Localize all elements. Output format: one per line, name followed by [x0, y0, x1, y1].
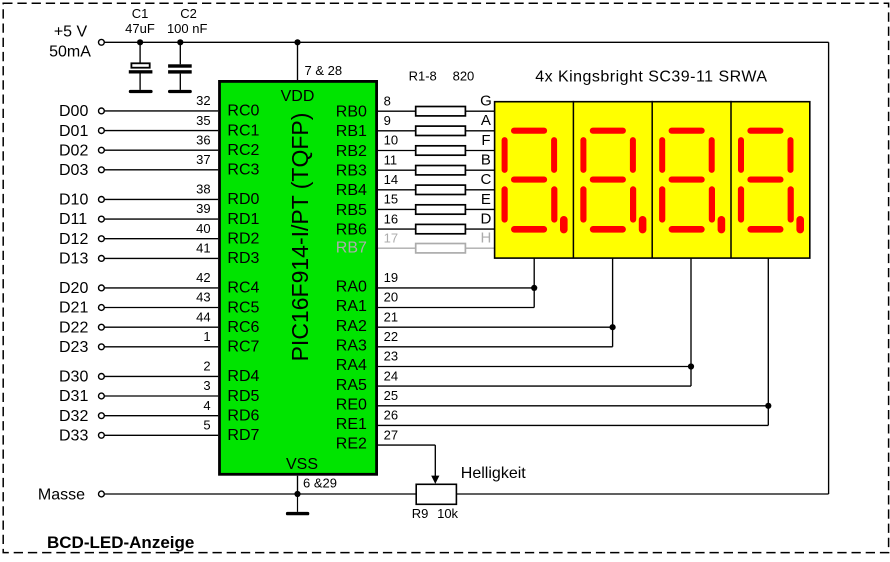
- svg-text:RB1: RB1: [336, 123, 367, 140]
- display digit 2 segments: [580, 128, 646, 234]
- svg-text:43: 43: [196, 290, 210, 305]
- wire RB1 to R2: [378, 130, 416, 132]
- label U1 part number PIC16F914-I/PT (TQFP): [287, 113, 313, 362]
- svg-text:39: 39: [196, 201, 210, 216]
- wire RE0 to digit4: [378, 405, 768, 407]
- svg-text:VSS: VSS: [286, 456, 318, 473]
- terminal D22: [99, 324, 105, 330]
- wire RA1 to digit1: [378, 307, 534, 309]
- wire D10 to RD0: [104, 198, 218, 200]
- ground below C2: [168, 90, 192, 93]
- label pin 2: [203, 359, 210, 374]
- resistor R8: [416, 244, 466, 253]
- label pin name RA3: [336, 337, 367, 354]
- label pin name RB2: [336, 143, 367, 160]
- label pin 37: [196, 152, 210, 167]
- svg-text:RA4: RA4: [336, 357, 367, 374]
- svg-text:32: 32: [196, 93, 210, 108]
- svg-text:11: 11: [384, 152, 398, 167]
- terminal D32: [99, 413, 105, 419]
- svg-text:RC3: RC3: [227, 162, 259, 179]
- terminal D12: [99, 236, 105, 242]
- svg-text:9: 9: [384, 113, 391, 128]
- junction C2 on rail: [177, 39, 183, 45]
- label pin name RB4: [336, 182, 367, 199]
- svg-text:4: 4: [203, 398, 210, 413]
- svg-text:14: 14: [384, 172, 398, 187]
- label pin name RB0: [336, 104, 367, 121]
- svg-text:BCD-LED-Anzeige: BCD-LED-Anzeige: [47, 533, 194, 552]
- resistor R3: [416, 146, 466, 155]
- label pin 10: [384, 133, 398, 148]
- svg-text:RE2: RE2: [336, 436, 367, 453]
- label pin 3: [203, 378, 210, 393]
- terminal D03: [99, 167, 105, 173]
- resistor R6: [416, 205, 466, 214]
- svg-text:C1: C1: [132, 6, 149, 21]
- svg-text:RB5: RB5: [336, 202, 367, 219]
- label pin name RA5: [336, 377, 367, 394]
- svg-text:VDD: VDD: [281, 88, 315, 105]
- wire RB4 to R5: [378, 189, 416, 191]
- wire R5 to segment C: [465, 189, 494, 191]
- terminal D11: [99, 216, 105, 222]
- svg-text:1: 1: [203, 329, 210, 344]
- svg-text:D11: D11: [59, 211, 87, 228]
- svg-text:4x Kingsbright SC39-11 SRWA: 4x Kingsbright SC39-11 SRWA: [535, 68, 767, 85]
- wire D33 to RD7: [104, 434, 218, 436]
- svg-text:G: G: [480, 93, 492, 110]
- label pin name RA1: [336, 298, 367, 315]
- svg-text:R1-8: R1-8: [409, 69, 437, 84]
- svg-text:A: A: [481, 112, 491, 129]
- label segment H: [480, 230, 491, 247]
- label pin name RB5: [336, 202, 367, 219]
- wire RA3 to digit2: [378, 346, 613, 348]
- svg-text:3: 3: [203, 378, 210, 393]
- label pin name RB3: [336, 163, 367, 180]
- terminal D13: [99, 256, 105, 262]
- label pin 43: [196, 290, 210, 305]
- svg-text:Masse: Masse: [38, 487, 85, 504]
- wire D00 to RC0: [104, 110, 218, 112]
- svg-text:RA2: RA2: [336, 318, 367, 335]
- svg-text:47uF: 47uF: [125, 21, 155, 36]
- label pin name RB7: [336, 240, 367, 257]
- svg-text:RB0: RB0: [336, 104, 367, 121]
- wire digit2 common column: [612, 258, 614, 327]
- wire RA2 to digit2: [378, 326, 613, 328]
- svg-text:D33: D33: [59, 428, 88, 445]
- label pin 15: [384, 192, 398, 207]
- resistor R5: [416, 185, 466, 194]
- terminal D02: [99, 147, 105, 153]
- svg-text:RA1: RA1: [336, 298, 367, 315]
- svg-text:19: 19: [384, 270, 398, 285]
- wire D22 to RC6: [104, 326, 218, 328]
- svg-text:+5 V: +5 V: [54, 24, 88, 41]
- display DS1-DS4 4x Kingsbright SC39-11 SRWA body: [495, 101, 810, 258]
- label pin 40: [196, 221, 210, 236]
- label pin 24: [384, 368, 398, 383]
- wire R2 to segment A: [465, 130, 494, 132]
- terminal Masse: [99, 491, 105, 497]
- svg-text:RC6: RC6: [227, 319, 259, 336]
- label pin 19: [384, 270, 398, 285]
- wire RB0 to R1: [378, 110, 416, 112]
- label net D20: [59, 280, 88, 297]
- wire RB5 to R6: [378, 208, 416, 210]
- wire RB7 to R8: [378, 247, 416, 249]
- label pin 44: [196, 309, 210, 324]
- label pin 41: [196, 241, 210, 256]
- wire RE1 to digit4: [378, 424, 768, 426]
- wire RA4 to digit3: [378, 366, 691, 368]
- svg-text:RD1: RD1: [227, 211, 259, 228]
- svg-text:23: 23: [384, 349, 398, 364]
- label pin name RE1: [336, 416, 367, 433]
- svg-text:40: 40: [196, 221, 210, 236]
- svg-text:6 &29: 6 &29: [303, 476, 337, 491]
- junction C1 on rail: [137, 39, 143, 45]
- junction VSS junction: [294, 491, 300, 497]
- svg-text:PIC16F914-I/PT (TQFP): PIC16F914-I/PT (TQFP): [287, 113, 313, 362]
- svg-text:D00: D00: [59, 103, 88, 120]
- label net D11: [59, 211, 87, 228]
- label pin 36: [196, 132, 210, 147]
- svg-text:15: 15: [384, 192, 398, 207]
- svg-text:27: 27: [384, 427, 398, 442]
- svg-text:36: 36: [196, 132, 210, 147]
- wire RE2 out: [378, 444, 435, 446]
- wire R6 to segment E: [465, 208, 494, 210]
- label pin name RC0: [227, 103, 259, 120]
- wire +5V rail to R9: [456, 493, 828, 495]
- svg-text:RD5: RD5: [227, 388, 259, 405]
- svg-text:RB4: RB4: [336, 182, 367, 199]
- svg-text:RD2: RD2: [227, 231, 259, 248]
- junction digit1 common: [531, 285, 537, 291]
- label pin name RC7: [227, 339, 259, 356]
- wire D23 to RC7: [104, 346, 218, 348]
- svg-text:C: C: [480, 171, 491, 188]
- label pin 42: [196, 270, 210, 285]
- svg-text:D02: D02: [59, 142, 88, 159]
- wire R4 to segment B: [465, 169, 494, 171]
- label pin 38: [196, 182, 210, 197]
- svg-text:D13: D13: [59, 251, 88, 268]
- label display title: [535, 68, 767, 85]
- svg-text:D30: D30: [59, 369, 88, 386]
- wire VDD stub: [297, 42, 299, 80]
- svg-text:10: 10: [384, 133, 398, 148]
- label pins 7 & 28: [305, 63, 343, 78]
- capacitor C1: [129, 42, 153, 90]
- svg-text:RA5: RA5: [336, 377, 367, 394]
- svg-text:26: 26: [384, 408, 398, 423]
- R9 wiper arrow: [431, 476, 439, 484]
- svg-text:5: 5: [203, 418, 210, 433]
- svg-text:D12: D12: [59, 231, 88, 248]
- svg-text:7 & 28: 7 & 28: [305, 63, 343, 78]
- svg-text:RA3: RA3: [336, 337, 367, 354]
- wire R7 to segment D: [465, 228, 494, 230]
- display digit 3 segments: [659, 128, 725, 234]
- label pin 8: [384, 93, 391, 108]
- svg-text:RB3: RB3: [336, 163, 367, 180]
- label segment F: [481, 132, 490, 149]
- wire digit1 common column: [533, 258, 535, 288]
- wire D11 to RD1: [104, 218, 218, 220]
- wire RA3 riser: [612, 327, 614, 347]
- display digit 1 segments: [502, 128, 568, 234]
- capacitor C2: [168, 42, 192, 90]
- terminal D31: [99, 393, 105, 399]
- svg-text:100 nF: 100 nF: [167, 21, 208, 36]
- svg-text:20: 20: [384, 290, 398, 305]
- label C2: [180, 6, 197, 21]
- label pin 14: [384, 172, 398, 187]
- svg-text:50mA: 50mA: [49, 44, 91, 61]
- svg-text:RE0: RE0: [336, 396, 367, 413]
- wire D31 to RD5: [104, 395, 218, 397]
- wire RB6 to R7: [378, 228, 416, 230]
- label segment E: [481, 191, 491, 208]
- wire RA0 to digit1: [378, 287, 534, 289]
- svg-text:37: 37: [196, 152, 210, 167]
- label pin name RC3: [227, 162, 259, 179]
- svg-text:RC1: RC1: [227, 122, 259, 139]
- wire RA5 to digit3: [378, 385, 691, 387]
- svg-text:D22: D22: [59, 319, 88, 336]
- svg-text:2: 2: [203, 359, 210, 374]
- wire Masse to R9: [104, 493, 416, 495]
- junction digit2 common: [610, 324, 616, 330]
- svg-text:RB2: RB2: [336, 143, 367, 160]
- label net D33: [59, 428, 88, 445]
- label pin name RA2: [336, 318, 367, 335]
- label pin name RC2: [227, 142, 259, 159]
- label R9 designator: [412, 506, 429, 521]
- wire +5V rail right vertical: [828, 42, 830, 494]
- svg-text:D: D: [480, 210, 491, 227]
- junction digit3 common: [688, 363, 694, 369]
- svg-text:B: B: [481, 152, 491, 169]
- label net D01: [59, 123, 88, 140]
- label net D22: [59, 319, 88, 336]
- label pin name RE0: [336, 396, 367, 413]
- svg-text:8: 8: [384, 93, 391, 108]
- label pin 32: [196, 93, 210, 108]
- svg-text:RC4: RC4: [227, 280, 259, 297]
- svg-text:C2: C2: [180, 6, 197, 21]
- label pin name RD5: [227, 388, 259, 405]
- label segment B: [481, 152, 491, 169]
- terminal D01: [99, 128, 105, 134]
- label Helligkeit: [461, 465, 526, 482]
- label pin 9: [384, 113, 391, 128]
- label C1: [132, 6, 149, 21]
- label pin 20: [384, 290, 398, 305]
- svg-text:42: 42: [196, 270, 210, 285]
- label pin 27: [384, 427, 398, 442]
- label net D30: [59, 369, 88, 386]
- wire RA5 riser: [690, 367, 692, 387]
- svg-text:41: 41: [196, 241, 210, 256]
- wire R1 to segment G: [465, 110, 494, 112]
- label pin 25: [384, 388, 398, 403]
- svg-text:17: 17: [384, 230, 398, 245]
- label pin 39: [196, 201, 210, 216]
- svg-text:D03: D03: [59, 162, 88, 179]
- svg-text:RB7: RB7: [336, 240, 367, 257]
- svg-text:22: 22: [384, 329, 398, 344]
- label pin name RD2: [227, 231, 259, 248]
- wire D30 to RD4: [104, 375, 218, 377]
- label VSS pin name: [286, 456, 318, 473]
- label pin name RE2: [336, 436, 367, 453]
- svg-text:RC0: RC0: [227, 103, 259, 120]
- label pin 35: [196, 113, 210, 128]
- label segment A: [481, 112, 491, 129]
- svg-text:D20: D20: [59, 280, 88, 297]
- label +5 V: [54, 24, 88, 41]
- wire RE2 down to R9 wiper: [434, 445, 436, 476]
- svg-text:R9: R9: [412, 506, 429, 521]
- terminal D10: [99, 197, 105, 203]
- label net D12: [59, 231, 88, 248]
- wire +5V rail top: [104, 41, 828, 43]
- wire D03 to RC3: [104, 169, 218, 171]
- svg-text:D31: D31: [59, 388, 88, 405]
- terminal D23: [99, 344, 105, 350]
- label C1 value: [125, 21, 155, 36]
- label pin 4: [203, 398, 210, 413]
- label R9 value 10k: [437, 506, 458, 521]
- svg-text:16: 16: [384, 211, 398, 226]
- svg-text:RC7: RC7: [227, 339, 259, 356]
- label net D10: [59, 192, 88, 209]
- label schematic title BCD-LED-Anzeige: [47, 533, 194, 552]
- svg-text:D01: D01: [59, 123, 88, 140]
- label net D03: [59, 162, 88, 179]
- svg-text:D10: D10: [59, 192, 88, 209]
- ground below VSS: [286, 494, 309, 515]
- wire RE1 riser: [767, 406, 769, 426]
- svg-text:21: 21: [384, 309, 398, 324]
- svg-text:RA0: RA0: [336, 279, 367, 296]
- svg-text:820: 820: [453, 69, 475, 84]
- label net D13: [59, 251, 88, 268]
- label net D23: [59, 339, 88, 356]
- label R1-8 designator: [409, 69, 437, 84]
- label C2 value: [167, 21, 208, 36]
- wire D02 to RC2: [104, 149, 218, 151]
- svg-text:RD3: RD3: [227, 250, 259, 267]
- label VDD pin name: [281, 88, 315, 105]
- terminal D33: [99, 432, 105, 438]
- label pin 11: [384, 152, 398, 167]
- terminal +5V: [99, 39, 105, 45]
- label pins 6 & 29: [303, 476, 337, 491]
- label pin 1: [203, 329, 210, 344]
- svg-text:D23: D23: [59, 339, 88, 356]
- svg-text:RD6: RD6: [227, 408, 259, 425]
- resistor R2: [416, 126, 466, 135]
- label net D32: [59, 408, 88, 425]
- resistor R7: [416, 224, 466, 233]
- wire digit3 common column: [690, 258, 692, 366]
- svg-text:E: E: [481, 191, 491, 208]
- label net Masse: [38, 487, 85, 504]
- svg-text:RD0: RD0: [227, 191, 259, 208]
- label pin 16: [384, 211, 398, 226]
- wire D21 to RC5: [104, 307, 218, 309]
- label segment G: [480, 93, 492, 110]
- label segment C: [480, 171, 491, 188]
- svg-text:RB6: RB6: [336, 221, 367, 238]
- label pin 17: [384, 230, 398, 245]
- wire D32 to RD6: [104, 415, 218, 417]
- svg-text:RC5: RC5: [227, 299, 259, 316]
- ground below C1: [129, 90, 153, 93]
- wire R8 to segment H: [465, 247, 494, 249]
- label net D00: [59, 103, 88, 120]
- label pin name RC4: [227, 280, 259, 297]
- svg-text:RD7: RD7: [227, 427, 259, 444]
- label pin name RC5: [227, 299, 259, 316]
- label pin name RC6: [227, 319, 259, 336]
- svg-text:Helligkeit: Helligkeit: [461, 465, 526, 482]
- label R1-8 value 820: [453, 69, 475, 84]
- svg-text:F: F: [481, 132, 490, 149]
- label pin name RD7: [227, 427, 259, 444]
- wire RB3 to R4: [378, 169, 416, 171]
- wire RB2 to R3: [378, 150, 416, 152]
- svg-text:35: 35: [196, 113, 210, 128]
- label pin name RD0: [227, 191, 259, 208]
- label net D02: [59, 142, 88, 159]
- terminal D00: [99, 108, 105, 114]
- svg-text:24: 24: [384, 368, 398, 383]
- display digit 4 segments: [738, 128, 804, 234]
- potentiometer R9: [416, 484, 456, 504]
- label pin name RD1: [227, 211, 259, 228]
- resistor R1: [416, 107, 466, 116]
- wire D12 to RD2: [104, 238, 218, 240]
- wire R3 to segment F: [465, 150, 494, 152]
- label pin 23: [384, 349, 398, 364]
- label pin name RA0: [336, 279, 367, 296]
- svg-text:RC2: RC2: [227, 142, 259, 159]
- label net D21: [59, 300, 88, 317]
- label pin 5: [203, 418, 210, 433]
- svg-text:D21: D21: [59, 300, 88, 317]
- label pin name RB6: [336, 221, 367, 238]
- svg-text:44: 44: [196, 309, 210, 324]
- label pin 22: [384, 329, 398, 344]
- resistor R4: [416, 166, 466, 175]
- label pin name RB1: [336, 123, 367, 140]
- svg-text:D32: D32: [59, 408, 88, 425]
- junction digit4 common: [765, 403, 771, 409]
- label segment D: [480, 210, 491, 227]
- label pin name RA4: [336, 357, 367, 374]
- svg-text:10k: 10k: [437, 506, 458, 521]
- label pin name RD6: [227, 408, 259, 425]
- wire RA1 riser: [533, 288, 535, 308]
- terminal D20: [99, 285, 105, 291]
